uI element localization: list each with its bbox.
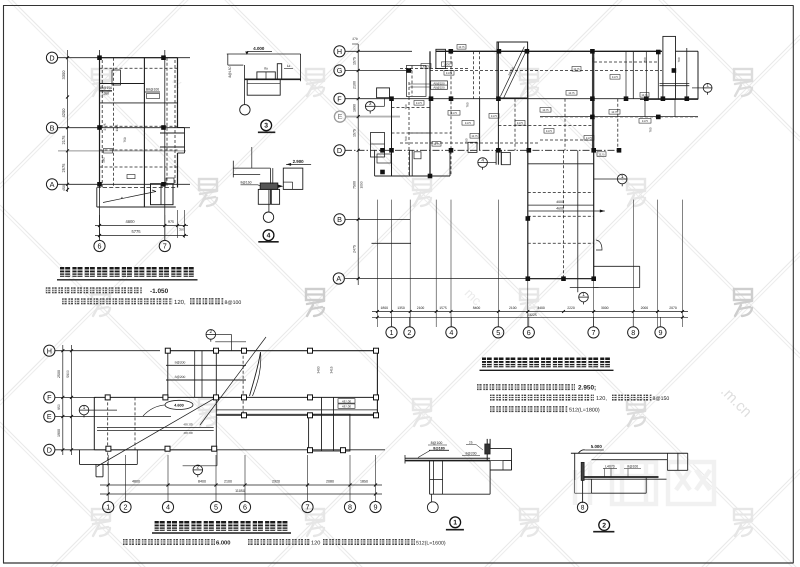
- svg-text:6: 6: [243, 503, 247, 512]
- svg-text:4600: 4600: [556, 207, 564, 211]
- svg-text:4.000: 4.000: [253, 46, 265, 51]
- partition line below B: [372, 242, 412, 244]
- svg-text:6.000: 6.000: [216, 539, 231, 546]
- plan 3: roof structure plan group: [44, 329, 385, 512]
- svg-text:2.900: 2.900: [293, 159, 305, 164]
- grid row D p3: [55, 449, 385, 451]
- svg-text:6: 6: [527, 328, 531, 337]
- svg-text:2175: 2175: [103, 123, 107, 130]
- detail 4 section drawing: [233, 147, 311, 242]
- svg-text:1575: 1575: [353, 57, 357, 65]
- rooms left below E: [371, 133, 385, 158]
- svg-text:1575: 1575: [353, 129, 357, 137]
- svg-text:7500: 7500: [353, 181, 357, 189]
- svg-text:8@100: 8@100: [225, 300, 242, 306]
- grid line A: [58, 183, 191, 185]
- svg-text:1900: 1900: [57, 429, 61, 437]
- svg-text:780: 780: [465, 138, 469, 143]
- interior walls right body: [625, 51, 627, 98]
- svg-text:1: 1: [621, 174, 624, 179]
- lower box: [247, 79, 280, 95]
- svg-text:8@150: 8@150: [241, 181, 252, 185]
- svg-text:1800: 1800: [381, 306, 389, 310]
- svg-text:8@200: 8@200: [175, 375, 186, 379]
- svg-text:1175: 1175: [115, 124, 119, 131]
- svg-text:1050: 1050: [360, 181, 364, 188]
- left rect left edge: [93, 397, 95, 449]
- dashed 473.5: [473, 51, 475, 98]
- left rect bottom on D: [94, 449, 216, 451]
- wall 479.6: [479, 51, 481, 98]
- svg-text:780: 780: [649, 127, 653, 132]
- axis bubble 8 below: [577, 502, 587, 512]
- svg-text:1175: 1175: [641, 93, 648, 97]
- svg-text:1175: 1175: [611, 110, 618, 114]
- left dim chains p3: [62, 345, 64, 455]
- columns plan 2: [449, 49, 454, 54]
- svg-text:1: 1: [390, 328, 394, 337]
- dashed beams left rooms: [392, 107, 431, 109]
- svg-text:1175: 1175: [642, 119, 649, 123]
- svg-text:1175: 1175: [568, 91, 575, 95]
- elevation oval 4.600: [165, 400, 193, 409]
- svg-text:3415: 3415: [330, 366, 334, 373]
- lower-left rooms below D: [374, 150, 376, 176]
- plan 1 wall left inner dashed: [101, 60, 103, 188]
- detail 3 section drawing: [227, 46, 301, 132]
- svg-text:1890: 1890: [353, 104, 357, 112]
- svg-text:487.00: 487.00: [342, 399, 352, 403]
- col5 wall: [497, 42, 499, 165]
- svg-text:4200: 4200: [61, 108, 66, 118]
- note plan 3: [123, 539, 446, 546]
- svg-text:2575: 2575: [61, 163, 66, 173]
- balcony protrusion right: [178, 127, 185, 129]
- svg-text:4800: 4800: [125, 219, 135, 224]
- svg-text:8: 8: [348, 503, 352, 512]
- axis bubble F p3: [44, 392, 55, 403]
- axis bubble F: [334, 93, 345, 104]
- svg-text:2: 2: [124, 503, 128, 512]
- svg-text:2: 2: [210, 329, 213, 334]
- svg-text:750: 750: [123, 137, 127, 143]
- notes plan 1: [46, 287, 242, 306]
- svg-text:L4070: L4070: [605, 465, 615, 469]
- svg-text:4: 4: [166, 503, 170, 512]
- below boxes: [258, 189, 270, 204]
- svg-text:5.000: 5.000: [591, 444, 603, 449]
- svg-text:8400: 8400: [473, 306, 481, 310]
- svg-text:1575: 1575: [439, 306, 447, 310]
- svg-text:5775: 5775: [131, 229, 141, 234]
- roof shaft box top right: [663, 36, 676, 99]
- svg-text:2475: 2475: [353, 245, 357, 253]
- middle stair band verticals: [321, 397, 323, 451]
- grid row D dashdot: [345, 149, 620, 151]
- svg-text:▲: ▲: [120, 196, 123, 200]
- beams dashed right body: [594, 61, 658, 63]
- plan 1: first-floor structure plan group: [46, 50, 190, 252]
- svg-text:487.00: 487.00: [342, 405, 352, 409]
- svg-text:2100: 2100: [353, 81, 357, 89]
- detail 2 section drawing: [571, 444, 688, 532]
- svg-text:120,: 120,: [596, 396, 607, 402]
- detail mark F left: [365, 101, 375, 114]
- svg-text:E: E: [47, 412, 52, 421]
- right box: [283, 168, 303, 189]
- svg-text:780: 780: [643, 57, 647, 62]
- below slab boxes: [429, 461, 431, 495]
- slab double line: [405, 457, 490, 459]
- grid row E gray: [345, 116, 400, 118]
- axis bubble A: [333, 273, 344, 284]
- svg-text:4: 4: [267, 233, 271, 240]
- grid line B: [58, 127, 191, 129]
- grid line D: [58, 57, 191, 59]
- svg-text:8@100: 8@100: [627, 465, 638, 469]
- svg-text:H: H: [337, 47, 342, 56]
- right box: [490, 448, 511, 450]
- left wall: [574, 453, 576, 480]
- grid line 6 vertical: [99, 50, 101, 240]
- col2 dashed: [408, 82, 410, 176]
- svg-text:1850: 1850: [360, 480, 368, 484]
- svg-text:1175: 1175: [423, 64, 430, 68]
- detail mark top p3: [206, 329, 216, 342]
- svg-text:3000: 3000: [601, 306, 609, 310]
- detail 2 title circled number: [599, 520, 610, 531]
- wall x430: [429, 51, 431, 176]
- detail mark E p3: [79, 405, 89, 418]
- svg-text:2080: 2080: [326, 480, 334, 484]
- axis bubble B: [46, 122, 57, 133]
- svg-text:1175: 1175: [542, 108, 549, 112]
- svg-text:1: 1: [582, 292, 585, 297]
- svg-text:1: 1: [106, 503, 110, 512]
- stair box bottom: [151, 184, 174, 205]
- svg-text:1175: 1175: [491, 114, 498, 118]
- svg-text:8@150: 8@150: [653, 396, 670, 402]
- right band interior: [216, 409, 377, 411]
- svg-text:5: 5: [214, 503, 218, 512]
- axis bubble D: [46, 52, 57, 63]
- svg-text:4000: 4000: [556, 200, 564, 204]
- svg-text:3: 3: [369, 101, 372, 106]
- grid row B: [345, 218, 410, 220]
- stair bottom box: [309, 414, 350, 451]
- svg-text:8@180: 8@180: [433, 446, 445, 450]
- col1 wall: [391, 99, 393, 176]
- tower left wall col6: [527, 51, 529, 279]
- svg-text:4.600: 4.600: [174, 404, 184, 408]
- plan 1 outer wall left: [99, 58, 101, 188]
- large faint site watermark bottom right: [575, 462, 714, 505]
- plan 1 outer wall top: [100, 57, 178, 59]
- roof top edge: [167, 350, 378, 352]
- svg-text:780: 780: [592, 57, 596, 62]
- svg-text:5900: 5900: [66, 370, 70, 378]
- detail mark tower bottom: [579, 292, 589, 305]
- main beam hatch: [260, 183, 278, 189]
- beam label B8@150: [100, 90, 113, 92]
- grid row H: [345, 50, 412, 52]
- grid row E p3: [55, 416, 95, 418]
- box right of tower bottom: [594, 265, 640, 267]
- vertical double: [269, 168, 271, 184]
- svg-text:780: 780: [404, 136, 408, 141]
- inner top line: [592, 459, 668, 461]
- svg-text:1350: 1350: [397, 306, 405, 310]
- extension lines to bottom dims: [376, 200, 378, 327]
- svg-text:8: 8: [631, 328, 635, 337]
- bottom dimension chain p3: [100, 484, 382, 486]
- below-D extension left: [79, 450, 81, 465]
- outer lower box: [574, 480, 576, 493]
- svg-text:3300: 3300: [61, 70, 66, 80]
- svg-text:1200: 1200: [443, 62, 450, 66]
- detail 1 title circled number: [450, 517, 461, 528]
- axis bubble H: [334, 46, 345, 57]
- stairwell box with diagonal: [497, 42, 528, 98]
- svg-text:975: 975: [168, 220, 174, 224]
- interior columns plan1: [97, 55, 102, 60]
- right wing outline: [676, 50, 699, 52]
- left rect double beam: [97, 426, 214, 428]
- leader diagonal into roof: [200, 337, 266, 425]
- grid verticals down to bubbles p3: [107, 455, 109, 501]
- small beam labels scattered plan2: [414, 101, 424, 106]
- svg-text:1175: 1175: [573, 67, 580, 71]
- bottom dimension chain: [99, 215, 101, 238]
- svg-text:1175: 1175: [586, 136, 593, 140]
- top-left box: [436, 49, 446, 68]
- svg-text:950: 950: [57, 404, 61, 410]
- title plan 2: [480, 358, 614, 371]
- svg-text:780: 780: [404, 104, 408, 109]
- svg-text:7: 7: [592, 328, 596, 337]
- detail 1 section drawing: [405, 439, 512, 530]
- detail mark right: [703, 83, 712, 95]
- svg-text:487.00: 487.00: [183, 431, 193, 435]
- axis bubble 6: [94, 240, 105, 251]
- axis bubble H p3: [44, 345, 55, 356]
- band bottom edge: [216, 414, 377, 416]
- axis bubble D p3: [44, 444, 55, 455]
- dashed beam above D: [400, 142, 540, 144]
- svg-text:1175: 1175: [546, 129, 553, 133]
- top edge wall: [436, 50, 662, 52]
- svg-text:1175: 1175: [416, 101, 423, 105]
- svg-text:B8@150: B8@150: [99, 86, 112, 90]
- band F line wall: [94, 396, 377, 398]
- curved wall piece: [250, 352, 261, 396]
- svg-text:E: E: [338, 112, 343, 121]
- svg-text:780: 780: [677, 57, 681, 62]
- svg-text:8400: 8400: [198, 480, 206, 484]
- svg-text:9: 9: [659, 328, 663, 337]
- svg-text:2175: 2175: [61, 135, 66, 145]
- svg-text:D: D: [47, 445, 52, 454]
- axis bubble B: [334, 214, 345, 225]
- svg-text:120: 120: [311, 540, 320, 546]
- tower door right: [596, 240, 602, 250]
- svg-text:2.950;: 2.950;: [578, 384, 596, 391]
- svg-text:1: 1: [706, 83, 709, 88]
- svg-text:1175: 1175: [451, 111, 458, 115]
- detail mark bottom p3: [216, 450, 218, 466]
- svg-text:D: D: [49, 53, 54, 62]
- svg-text:8@200: 8@200: [175, 361, 186, 365]
- axis bubble E gray: [334, 111, 345, 122]
- svg-text:2100: 2100: [224, 480, 232, 484]
- svg-text:1175: 1175: [458, 45, 465, 49]
- tower interior: [528, 163, 594, 165]
- svg-text:4: 4: [449, 328, 453, 337]
- svg-text:2000: 2000: [641, 306, 649, 310]
- svg-text:1175: 1175: [433, 142, 440, 146]
- beams labels A8@150: [431, 81, 448, 89]
- svg-text:7: 7: [163, 242, 167, 251]
- bottom outer wall: [97, 187, 178, 189]
- svg-text:5: 5: [496, 328, 500, 337]
- svg-text:1B2: 1B2: [102, 157, 106, 163]
- outline top: [571, 452, 688, 454]
- beam blocks: [257, 72, 275, 79]
- svg-text:8@100: 8@100: [431, 441, 443, 445]
- verticals upper band: [194, 351, 196, 398]
- svg-text:3400: 3400: [537, 306, 545, 310]
- roof slope diagonal: [97, 399, 214, 467]
- svg-text:A: A: [336, 274, 341, 283]
- grid row G: [345, 70, 412, 72]
- svg-text:3: 3: [264, 123, 268, 130]
- axis bubble D: [334, 145, 345, 156]
- svg-text:450: 450: [62, 185, 66, 191]
- svg-text:2500: 2500: [57, 370, 61, 378]
- svg-text:1175: 1175: [446, 71, 453, 75]
- svg-text:512(L=1600): 512(L=1600): [416, 540, 446, 546]
- svg-text:1175: 1175: [612, 75, 619, 79]
- plan 1 wall right inner dashed: [174, 60, 176, 185]
- beam label B8@100: [145, 91, 160, 93]
- grid row F p3: [55, 396, 96, 398]
- balcony at F left: [377, 88, 390, 98]
- axis bubble E p3: [44, 411, 55, 422]
- svg-text:D: D: [337, 146, 342, 155]
- bottom right box column: [166, 178, 174, 184]
- svg-text:A8@150: A8@150: [433, 86, 445, 90]
- svg-text:6: 6: [98, 242, 102, 251]
- svg-text:1175: 1175: [471, 134, 478, 138]
- svg-text:1: 1: [83, 405, 86, 410]
- svg-text:A: A: [50, 180, 55, 189]
- left dimension chain plan2: [357, 44, 359, 285]
- small label mid: [104, 149, 113, 154]
- svg-text:B8@100: B8@100: [146, 88, 159, 92]
- svg-text:350: 350: [179, 228, 184, 232]
- svg-text:780: 780: [466, 102, 470, 107]
- under-slab box: [591, 479, 593, 493]
- svg-text:4: 4: [481, 157, 484, 162]
- axis bubble G: [334, 65, 345, 76]
- svg-text:1175: 1175: [517, 121, 524, 125]
- svg-text:120,: 120,: [174, 299, 186, 306]
- col4 dashed: [450, 51, 452, 176]
- detail 4 title circled number: [263, 230, 274, 241]
- bottom dimension chain plan2: [372, 311, 688, 313]
- svg-text:2: 2: [197, 465, 200, 470]
- svg-text:B: B: [337, 215, 342, 224]
- detail mark tower right: [617, 174, 627, 187]
- axis bubble A: [46, 179, 57, 190]
- svg-text:F: F: [47, 393, 52, 402]
- interior vertical beams: [112, 58, 114, 188]
- slab thick: [584, 476, 659, 478]
- col8 line: [632, 51, 634, 98]
- svg-text:1175: 1175: [598, 152, 605, 156]
- svg-text:4800: 4800: [132, 480, 140, 484]
- svg-text:G: G: [337, 66, 343, 75]
- svg-text:3400: 3400: [317, 366, 321, 373]
- svg-text:-1.050: -1.050: [150, 288, 169, 295]
- light gray construction line: [58, 150, 186, 152]
- upper-left band beams 8@200: [167, 351, 169, 398]
- svg-text:25: 25: [469, 441, 473, 445]
- detail 3 title circled number: [261, 120, 272, 131]
- roof right edge: [376, 351, 378, 416]
- grid row A: [345, 278, 594, 280]
- grid line 7 vertical: [164, 50, 166, 240]
- svg-text:8@150: 8@150: [228, 66, 232, 77]
- bottom axis bubbles plan2: [391, 317, 393, 326]
- svg-text:23225: 23225: [527, 313, 537, 317]
- notes plan 2: [477, 384, 669, 414]
- svg-text:11050: 11050: [235, 489, 245, 493]
- svg-text:F: F: [337, 94, 342, 103]
- svg-text:9: 9: [374, 503, 378, 512]
- interior dashed beams: [100, 67, 178, 69]
- hollow columns plan3: [165, 348, 170, 353]
- protrusion below col5 with detail mark: [495, 150, 497, 165]
- plan 1 outer wall right: [177, 58, 179, 128]
- title plan 3: [152, 521, 291, 533]
- svg-text:H: H: [47, 346, 52, 355]
- svg-text:8a: 8a: [264, 67, 268, 71]
- interior room walls right part: [591, 51, 593, 150]
- drop line to circle: [244, 65, 246, 105]
- svg-text:2: 2: [407, 328, 411, 337]
- title plan 1: [57, 267, 198, 280]
- svg-text:8: 8: [581, 505, 585, 512]
- axis bubble 7: [159, 240, 170, 251]
- svg-text:512(L=1800): 512(L=1800): [569, 408, 600, 414]
- grid row H p3: [55, 350, 160, 352]
- svg-text:2070: 2070: [669, 306, 677, 310]
- svg-text:1350: 1350: [102, 92, 109, 96]
- svg-text:2: 2: [602, 522, 606, 529]
- interior dashed beams upper: [400, 68, 470, 70]
- svg-text:2100: 2100: [509, 306, 517, 310]
- svg-text:270: 270: [352, 37, 358, 41]
- svg-text:7: 7: [306, 503, 310, 512]
- drop to circle d1: [431, 494, 433, 502]
- svg-text:8@200: 8@200: [466, 452, 477, 456]
- left dimension chain: [67, 50, 69, 192]
- stair arrow: [103, 192, 156, 203]
- right wall: [486, 439, 488, 460]
- tower right wall col7: [593, 51, 595, 279]
- svg-text:1a: 1a: [287, 64, 291, 68]
